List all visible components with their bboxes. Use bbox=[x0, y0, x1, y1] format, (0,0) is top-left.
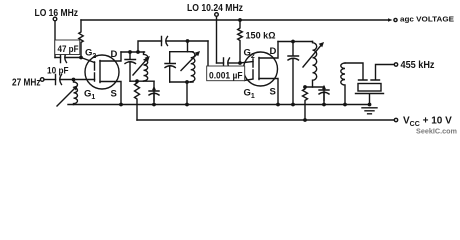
node tank1 cap bbox=[128, 50, 132, 54]
svg-text:10 pF: 10 pF bbox=[47, 66, 69, 76]
transistor Q2 bbox=[244, 52, 278, 86]
svg-text:0.001 µF: 0.001 µF bbox=[209, 71, 243, 81]
ground rail bbox=[68, 104, 370, 106]
node LO 10.24 terminal bbox=[215, 13, 219, 17]
gate bars Q2 bbox=[252, 59, 254, 78]
wire drain2 top bbox=[278, 41, 313, 43]
ground symbol bbox=[362, 108, 377, 114]
agc rail bbox=[81, 19, 389, 21]
wire tank2 bottom bbox=[170, 81, 193, 83]
node input coil junction bbox=[72, 78, 76, 82]
resistor IF bbox=[303, 87, 308, 120]
svg-text:S: S bbox=[111, 89, 117, 100]
wire 47pF to G2 junction bbox=[55, 57, 61, 59]
wire secondary top to filter bbox=[345, 63, 363, 79]
wire coupling to LO line bbox=[167, 40, 208, 42]
node tank2 gnd bbox=[185, 103, 189, 107]
wire Q2 G1 lead bbox=[245, 79, 254, 81]
wire Q1 drain bbox=[100, 52, 121, 61]
wire 455 to filter bbox=[376, 65, 395, 80]
node trimmer1 gnd bbox=[152, 103, 156, 107]
node tank1 bottom bbox=[135, 79, 139, 83]
svg-text:455 kHz: 455 kHz bbox=[401, 60, 435, 71]
node tank1 riser bbox=[136, 50, 140, 54]
svg-text:LO 16 MHz: LO 16 MHz bbox=[35, 8, 79, 19]
node LO 16 MHz terminal bbox=[53, 17, 57, 21]
wire cap to G2b bbox=[229, 62, 240, 64]
node primary bottom bbox=[303, 85, 307, 89]
channel Q1 bbox=[99, 61, 101, 83]
inductor tank2 variable bbox=[191, 52, 195, 82]
svg-text:150 kΩ: 150 kΩ bbox=[246, 31, 276, 41]
capacitor 10 pF bbox=[56, 75, 62, 85]
inductor IF primary variable bbox=[313, 42, 317, 88]
wire G2b lead bbox=[240, 62, 253, 64]
resistor drain feed to Vcc bbox=[135, 81, 140, 120]
node filter gnd bbox=[368, 103, 372, 107]
wire Q2 source bbox=[259, 79, 278, 105]
svg-text:agc VOLTAGE: agc VOLTAGE bbox=[400, 15, 454, 24]
wire Q1 source bbox=[100, 82, 121, 105]
wire G2a lead bbox=[81, 58, 95, 63]
channel Q2 bbox=[258, 58, 260, 80]
node agc terminal bbox=[394, 18, 397, 21]
wire tank2 riser bbox=[187, 41, 189, 52]
node outcap gnd bbox=[291, 103, 295, 107]
inductor tank1 variable bbox=[144, 52, 148, 81]
arrow tank1 bbox=[133, 59, 148, 76]
resistor 150k bbox=[238, 20, 243, 63]
node G2a junction bbox=[79, 56, 83, 60]
node out cap bbox=[291, 40, 295, 44]
node Q1 source gnd bbox=[119, 103, 123, 107]
capacitor coupling bbox=[162, 37, 168, 46]
arrow IF primary bbox=[303, 45, 322, 67]
wire LO16 down bbox=[54, 21, 56, 58]
gate bars Q1 bbox=[94, 62, 96, 81]
wire riser to coupling bbox=[138, 41, 162, 52]
node IF resistor Vcc bbox=[303, 118, 307, 122]
node secondary gnd bbox=[343, 103, 347, 107]
label 47 pF boxed bbox=[55, 40, 80, 55]
capacitor trimmer1 bbox=[149, 81, 159, 104]
svg-text:D: D bbox=[111, 49, 118, 60]
wire tank2 to gnd bbox=[186, 82, 188, 105]
wire tank1 top bbox=[121, 51, 145, 53]
capacitor output fixed bbox=[288, 42, 299, 105]
node tank2 bottom bbox=[185, 80, 189, 84]
inductor IF secondary bbox=[341, 63, 345, 105]
capacitor trimmer2 bbox=[319, 87, 329, 105]
wire tank2 top bbox=[170, 51, 193, 53]
node Vcc terminal bbox=[394, 118, 397, 121]
wire Q2 drain bbox=[259, 42, 278, 59]
node G2b junction bbox=[238, 61, 242, 65]
svg-text:LO 10.24 MHz: LO 10.24 MHz bbox=[187, 3, 243, 14]
node Q2 source gnd bbox=[276, 103, 280, 107]
wire elbow tank to cap bbox=[207, 41, 209, 67]
filter ceramic 455k bbox=[359, 79, 380, 81]
arrow input coil bbox=[57, 88, 76, 107]
svg-text:S: S bbox=[270, 87, 276, 98]
wire primary node bbox=[305, 86, 324, 88]
node tank2 top junction bbox=[186, 39, 190, 43]
svg-text:D: D bbox=[270, 46, 277, 57]
svg-text:SeekIC.com: SeekIC.com bbox=[416, 127, 457, 136]
node trimmer2 gnd bbox=[322, 103, 326, 107]
wire 10pF to G1 bbox=[61, 79, 95, 81]
svg-text:27 MHz: 27 MHz bbox=[12, 78, 41, 89]
node 455 terminal bbox=[394, 63, 397, 66]
node agc 150k bbox=[238, 18, 242, 22]
capacitor 47 pF bbox=[61, 53, 67, 63]
wire 27MHz to cap bbox=[44, 79, 56, 81]
arrow agc terminal bbox=[388, 18, 393, 22]
wire tank1 bottom bbox=[130, 80, 154, 82]
inductor input tuning bbox=[74, 80, 78, 105]
Vcc rail bbox=[137, 119, 394, 121]
label 0.001 uF boxed bbox=[207, 66, 245, 81]
svg-text:47 pF: 47 pF bbox=[58, 44, 79, 54]
arrow trimmer2 bbox=[323, 88, 325, 101]
arrow tank2 bbox=[181, 54, 198, 71]
resistor agc bias bbox=[79, 20, 83, 58]
wire LO10.24 down bbox=[216, 17, 218, 64]
capacitor tank1 bbox=[125, 52, 136, 81]
capacitor tank2 bbox=[165, 52, 175, 82]
capacitor 0.001 uF bbox=[217, 62, 224, 64]
node 27 MHz terminal bbox=[40, 78, 44, 82]
transistor Q1 bbox=[85, 55, 119, 89]
arrow trimmer1 bbox=[153, 89, 155, 101]
